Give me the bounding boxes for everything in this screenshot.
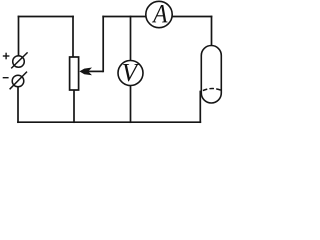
wire rheostat top lead (72, 17, 74, 58)
wire tube bottom lead (199, 92, 201, 123)
tube (cylinder with rounded ends) (201, 46, 221, 104)
voltmeter V (118, 61, 143, 86)
wire voltmeter top lead (130, 17, 132, 62)
tube liquid level (dashed arc) (203, 88, 221, 90)
wire top-left horizontal (19, 16, 74, 18)
rheostat wiper arrow (79, 68, 103, 76)
wire left vertical upper (18, 17, 20, 56)
terminal - (circle with slash) (10, 72, 27, 90)
rheostat R (slide resistor body) (70, 57, 79, 90)
wire rheostat bottom lead (73, 90, 75, 122)
label - (3, 77, 9, 79)
wire bottom horizontal (18, 121, 200, 123)
wire wiper vertical (102, 17, 104, 72)
wire left vertical lower (17, 87, 19, 122)
wire top-middle horizontal (103, 16, 146, 18)
wire top-right horizontal (172, 16, 212, 18)
wire right vertical to tube (211, 17, 213, 46)
terminal + (circle with slash) (11, 52, 27, 68)
label + (3, 53, 10, 60)
wire voltmeter bottom lead (130, 86, 132, 123)
ammeter A (146, 1, 172, 27)
